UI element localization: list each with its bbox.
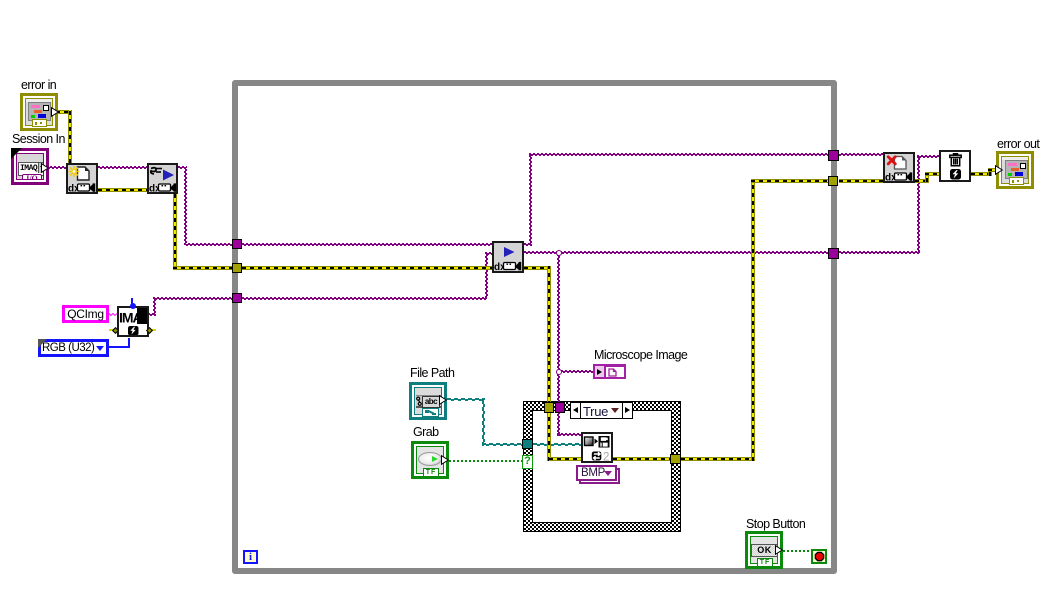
wire error dispose to error out	[971, 172, 992, 176]
wire image riser up	[153, 297, 156, 315]
constant RGB (U32)	[38, 339, 109, 357]
label Stop Button	[746, 517, 805, 531]
label Grab	[413, 425, 439, 439]
wire error configure down	[173, 194, 177, 270]
wire error to right loop tunnel	[751, 179, 828, 183]
grab output arrow	[441, 455, 449, 465]
tunnel path case left	[522, 439, 533, 449]
control Stop Button	[745, 531, 783, 569]
tunnel image case top	[555, 402, 565, 413]
wire image riser to grab	[485, 252, 488, 298]
tunnel error right	[828, 176, 838, 186]
wire session open to configure	[98, 166, 147, 169]
label Microscope Image	[594, 348, 687, 362]
wire error grab out	[524, 266, 551, 270]
node IMAQ Write File	[581, 432, 613, 463]
wire u32 rgb to create	[108, 346, 130, 348]
ok button output arrow	[775, 545, 783, 555]
node IMAQdx Grab	[492, 241, 524, 273]
wire error open to configure	[98, 188, 147, 192]
wire image into grab	[485, 252, 493, 255]
wire image branch to microscope indicator	[557, 370, 594, 373]
wire error inside case	[549, 457, 671, 461]
wire session in to open node	[46, 166, 66, 169]
wire error riser down to case	[547, 266, 551, 461]
wire string QCImg to create	[108, 313, 118, 316]
wire image branch down to case	[557, 253, 560, 436]
error in output arrow	[51, 107, 59, 117]
wire image inside case to write node	[557, 433, 582, 436]
error out input arrow	[995, 165, 1003, 175]
loop iteration terminal	[243, 550, 258, 564]
node create blue dot and stub	[131, 298, 133, 304]
wire image create out	[148, 313, 156, 316]
wire image inside loop	[242, 297, 487, 300]
while loop border	[232, 80, 837, 574]
file path output arrow	[439, 395, 447, 405]
label File Path	[410, 366, 454, 380]
wire session riser up	[529, 154, 532, 245]
wire session grab out	[524, 243, 532, 246]
wire session top to close node	[529, 153, 884, 156]
label Session In	[12, 132, 65, 146]
wire session to loop tunnel	[184, 243, 232, 246]
session in output arrow	[41, 163, 49, 173]
control Session In	[11, 148, 49, 185]
indicator Microscope Image	[593, 364, 626, 379]
case selector label True	[570, 402, 633, 419]
case selector terminal	[522, 455, 533, 469]
control Grab boolean	[411, 441, 449, 479]
wire error out of case	[681, 457, 755, 461]
node IMAQdx Configure Grab	[147, 163, 178, 194]
wire error in cluster to open node	[56, 110, 72, 114]
tunnel session left	[232, 239, 242, 249]
indicator error out cluster	[996, 151, 1034, 189]
wire image grab out to right tunnel	[524, 251, 828, 254]
tunnel error case right	[670, 454, 681, 464]
label error out	[997, 137, 1039, 151]
wire session configure out	[178, 166, 187, 169]
junction image out	[556, 250, 562, 256]
wire bool ok button to loop condition	[783, 550, 811, 552]
wire bool grab to case selector	[449, 460, 523, 462]
wire session riser down	[184, 167, 187, 245]
wire error vertical down to open node	[68, 110, 72, 163]
label error in	[21, 78, 56, 92]
tunnel error case top	[544, 402, 554, 413]
tunnel image right	[828, 248, 839, 259]
node IMAQdx Close Camera	[883, 152, 915, 183]
wire error inside loop to grab	[242, 266, 492, 270]
wire image into dispose	[917, 155, 940, 158]
node IMAQdx Open Camera	[66, 163, 98, 194]
svg-text:2: 2	[603, 452, 609, 462]
node IMAQ Dispose	[939, 150, 971, 182]
node create side diamonds	[109, 329, 114, 331]
wire error close to dispose	[915, 179, 929, 183]
constant BMP enum	[579, 468, 620, 484]
loop stop condition terminal	[811, 549, 827, 564]
case structure border	[523, 401, 681, 532]
constant QCImg	[62, 305, 109, 323]
wire image outside loop right	[839, 251, 920, 254]
tunnel image left	[232, 293, 242, 303]
wire error tunnel to close	[839, 179, 884, 183]
control error in cluster	[20, 93, 58, 131]
node IMAQ Create	[117, 306, 149, 337]
wire image riser up outside	[917, 156, 920, 254]
wire session inside loop to grab	[242, 243, 492, 246]
wire error riser up right	[751, 179, 755, 461]
junction microscope branch	[556, 369, 562, 375]
tunnel error left	[232, 263, 242, 273]
wire image to loop tunnel	[153, 297, 232, 300]
tunnel session right	[828, 150, 839, 161]
wire path file path to case	[447, 398, 485, 401]
wire error to loop tunnel	[173, 266, 232, 270]
wire path inside case to write	[533, 443, 582, 446]
control File Path	[409, 382, 447, 420]
